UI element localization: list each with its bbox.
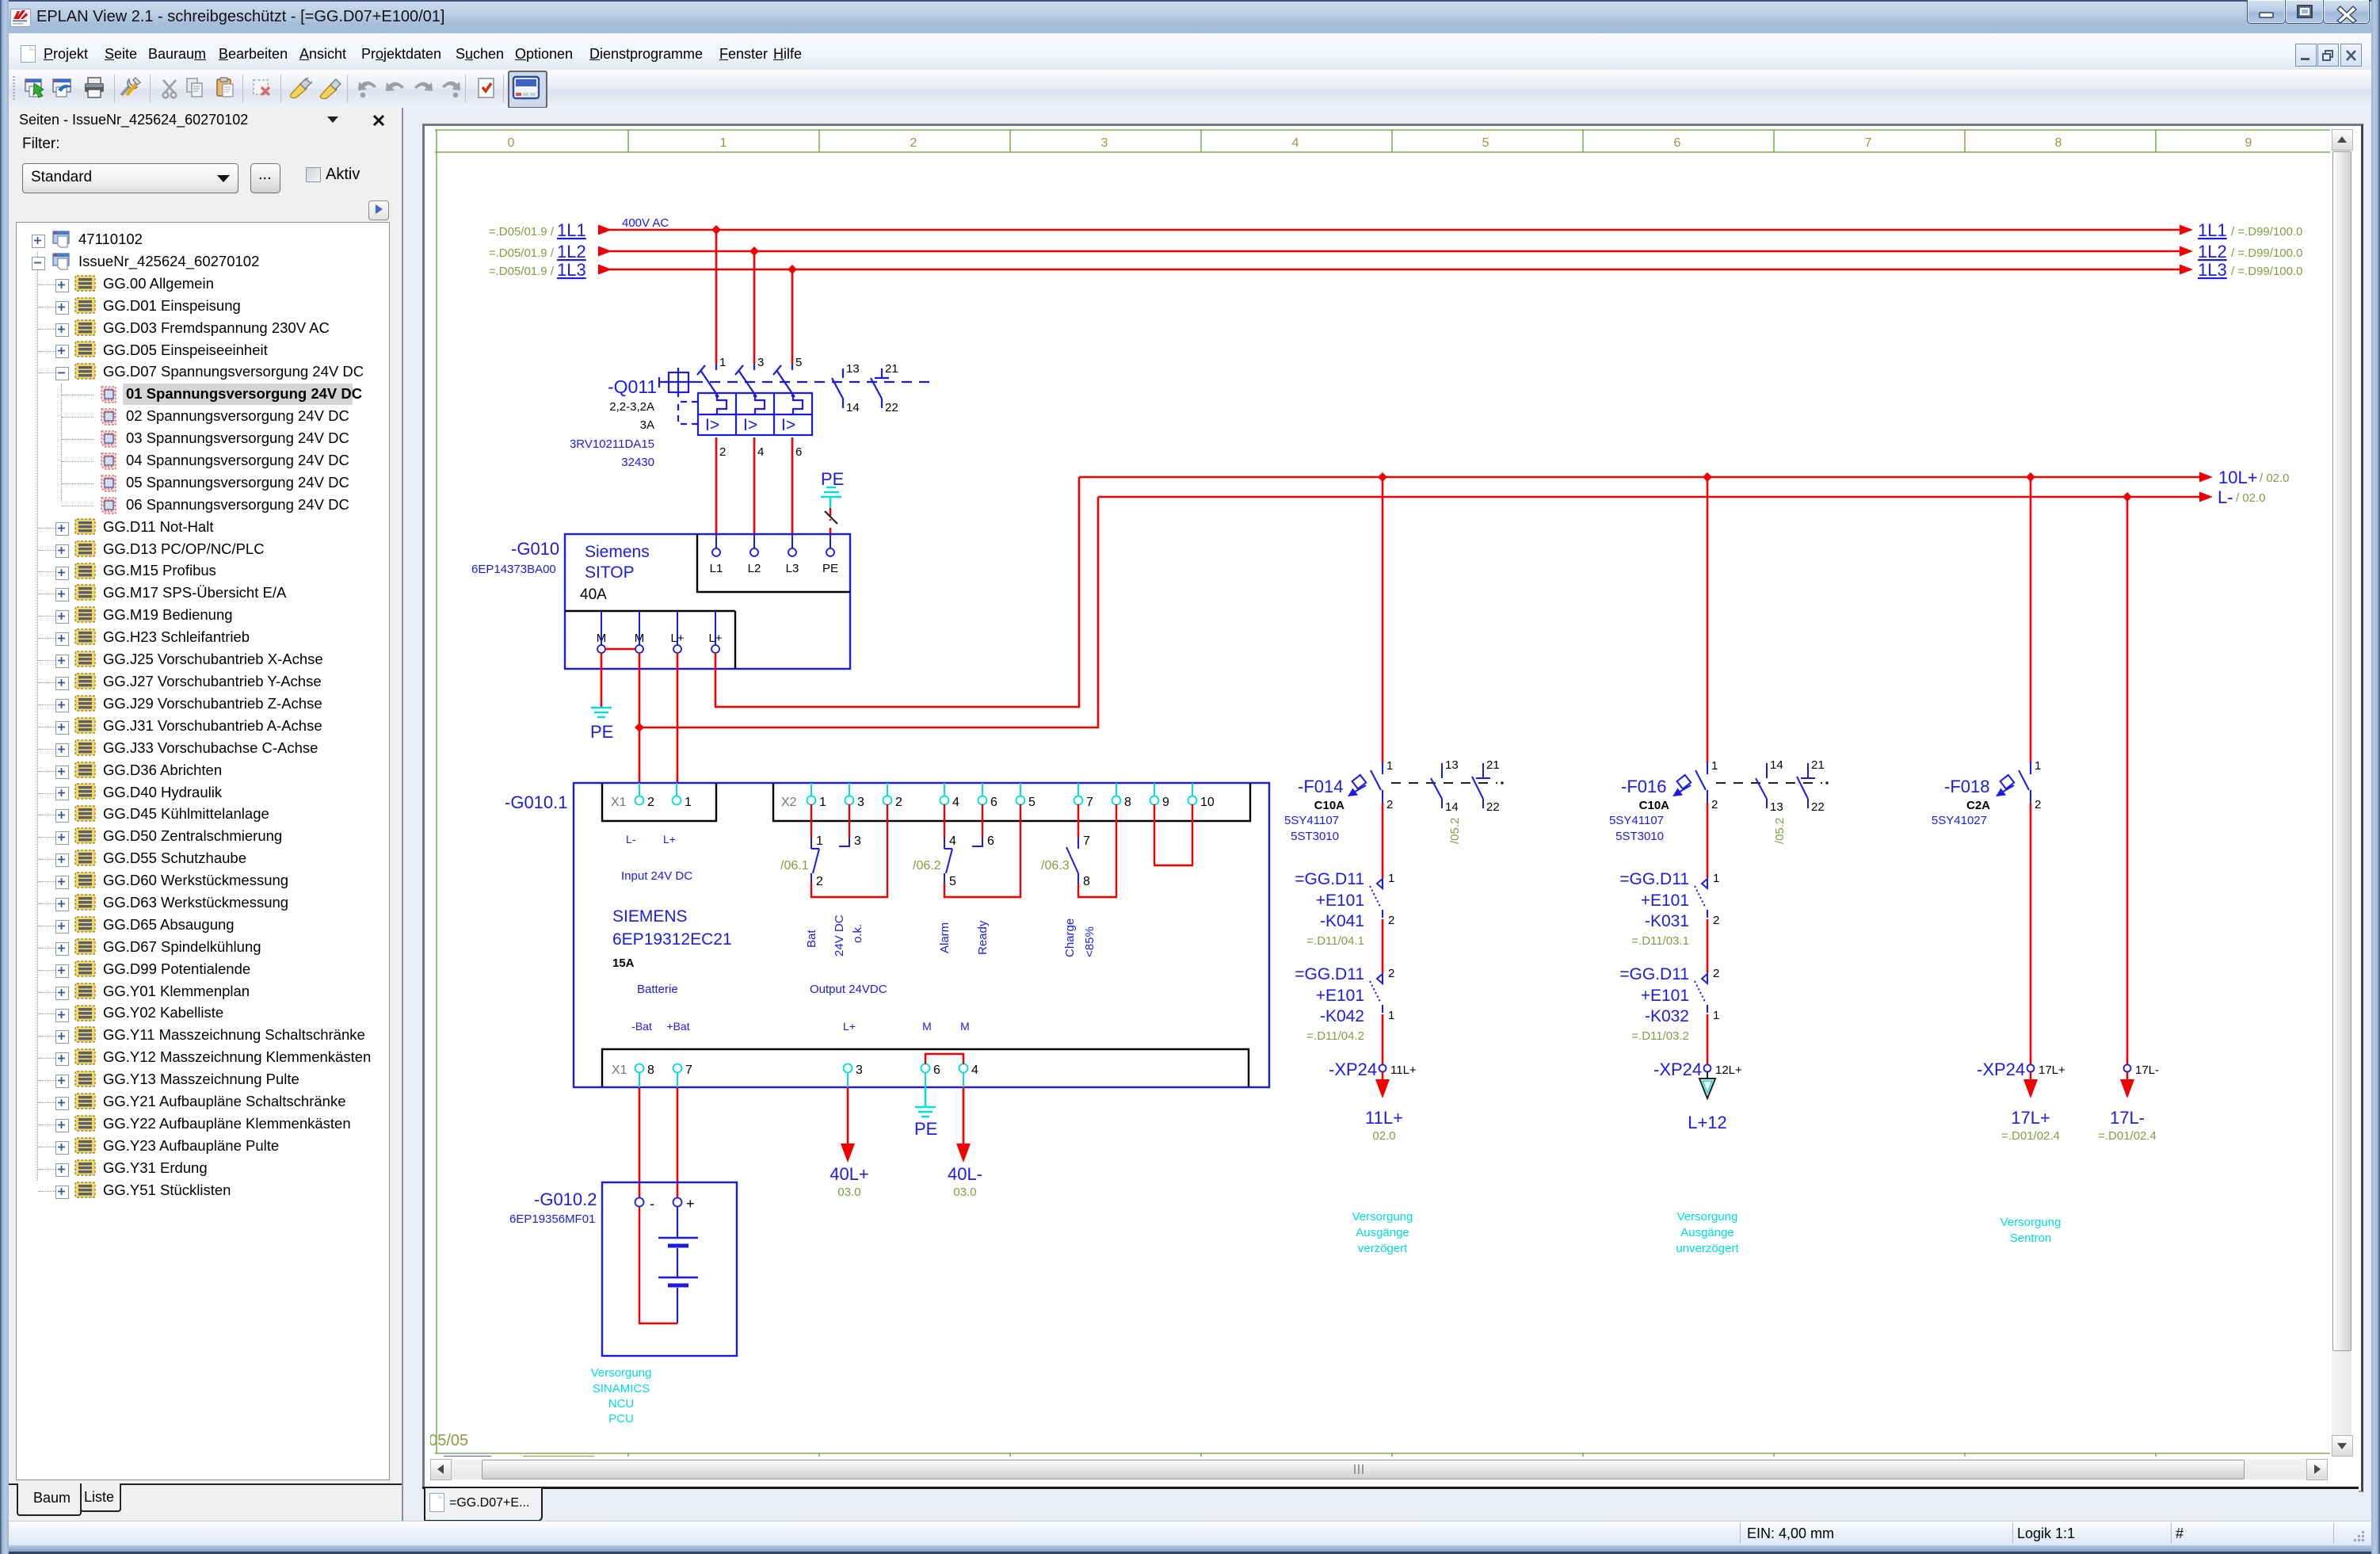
svg-text:14: 14: [1770, 758, 1783, 772]
svg-text:2: 2: [647, 796, 654, 809]
svg-text:5SY41027: 5SY41027: [1932, 814, 1987, 827]
G010.2 labels: [509, 1189, 597, 1226]
svg-text:L-: L-: [2218, 487, 2233, 507]
junction on L-: [2123, 492, 2132, 502]
wire F014 to K041: [1382, 803, 1384, 878]
forward button: [368, 200, 389, 220]
wire to G010.2 plus: [677, 1087, 679, 1198]
wire L+ down to X1.1: [677, 653, 679, 784]
svg-text:22: 22: [1486, 800, 1500, 814]
svg-text:Versorgung: Versorgung: [591, 1366, 652, 1380]
svg-text:L+: L+: [843, 1020, 856, 1033]
node label 1L1 right: [2198, 220, 2302, 240]
svg-text:6EP14373BA00: 6EP14373BA00: [471, 563, 556, 576]
svg-text:2: 2: [910, 136, 917, 150]
svg-text:3: 3: [1101, 136, 1108, 150]
svg-text:0: 0: [508, 136, 515, 150]
svg-text:NCU: NCU: [608, 1397, 635, 1411]
svg-text:-G010.1: -G010.1: [505, 792, 568, 812]
breaker F018: [1996, 762, 2031, 803]
panel titlebar: [19, 112, 248, 128]
svg-text:1: 1: [720, 136, 727, 150]
wire M1 to PE ground: [601, 653, 603, 708]
svg-text:11L+: 11L+: [1365, 1108, 1403, 1128]
svg-text:-XP24: -XP24: [1329, 1060, 1377, 1079]
svg-text:1L1: 1L1: [557, 220, 586, 240]
F014 aux 21/22: [1472, 763, 1490, 808]
terminal XP24 11L+: [1329, 1060, 1417, 1079]
svg-text:-G010: -G010: [511, 539, 559, 559]
wire F018 to XP24: [2030, 803, 2032, 1064]
svg-text:11L+: 11L+: [1390, 1063, 1417, 1077]
svg-text:1: 1: [1388, 1009, 1394, 1022]
svg-text:-F016: -F016: [1621, 777, 1666, 796]
svg-text:8: 8: [1083, 875, 1090, 888]
G010 input terminals L1 L2 L3 PE: [710, 534, 838, 575]
svg-text:C2A: C2A: [1966, 799, 1990, 812]
svg-text:PE: PE: [822, 562, 838, 575]
F016 aux 14/13: [1756, 763, 1767, 808]
svg-text:L-: L-: [626, 833, 636, 846]
wire M down to X1.2: [639, 727, 641, 784]
contact K032: [1695, 974, 1707, 1013]
node label 1L3 right: [2198, 260, 2302, 280]
function text SINAMICS supply: [591, 1366, 652, 1426]
svg-text:PE: PE: [821, 469, 844, 489]
node label 17L-: [2098, 1108, 2157, 1143]
svg-text:9: 9: [1162, 796, 1169, 809]
svg-text:/05.2: /05.2: [1773, 818, 1787, 844]
main window titlebar: [0, 0, 2380, 34]
svg-text:1L3: 1L3: [2198, 260, 2227, 280]
svg-text:/ 02.0: / 02.0: [2236, 491, 2266, 505]
wire arrow 17L+: [2023, 1072, 2038, 1098]
svg-text:4: 4: [952, 796, 959, 809]
svg-text:8: 8: [1124, 796, 1131, 809]
wire drops from buses to Q011: [716, 230, 792, 364]
svg-text:L3: L3: [786, 562, 799, 575]
svg-text:4: 4: [1292, 136, 1299, 150]
svg-text:4: 4: [971, 1063, 978, 1077]
svg-text:03.0: 03.0: [837, 1186, 860, 1199]
svg-text:-F018: -F018: [1944, 777, 1989, 796]
svg-text:Versorgung: Versorgung: [1352, 1210, 1413, 1224]
wire 40L+ with arrow: [841, 1087, 855, 1163]
svg-text:+E101: +E101: [1641, 892, 1689, 910]
svg-text:22: 22: [1811, 800, 1825, 814]
svg-text:=.D05/01.9 /: =.D05/01.9 /: [489, 225, 555, 239]
svg-text:7: 7: [1083, 834, 1090, 848]
G010.2 terminals: [635, 1196, 695, 1212]
horizontal scrollbar: [430, 1459, 2327, 1480]
svg-text:1L1: 1L1: [2198, 220, 2227, 240]
svg-text:6: 6: [933, 1063, 940, 1077]
K041 labels: [1295, 870, 1364, 948]
svg-text:5SY41107: 5SY41107: [1284, 814, 1339, 827]
toolbar icons: [25, 77, 47, 99]
function text outputs delayed: [1352, 1210, 1413, 1255]
svg-text:-K031: -K031: [1645, 912, 1689, 930]
page frame column ruler: [435, 130, 2347, 1453]
svg-text:03.0: 03.0: [953, 1186, 976, 1199]
svg-text:6: 6: [795, 445, 802, 459]
F018 pin numbers: [2035, 759, 2041, 811]
function text Sentron supply: [2000, 1216, 2062, 1245]
wire L- to 17L- terminal: [2126, 497, 2129, 1064]
svg-text:=.D11/04.1: =.D11/04.1: [1306, 934, 1364, 948]
svg-text:=GG.D11: =GG.D11: [1295, 965, 1364, 983]
svg-text:3: 3: [856, 1063, 863, 1077]
svg-text:10L+: 10L+: [2218, 468, 2258, 487]
svg-text:-XP24: -XP24: [1977, 1060, 2025, 1079]
F016 dashed link: [1716, 781, 1829, 785]
svg-text:12L+: 12L+: [1715, 1063, 1742, 1077]
ground PE from X1.6: [914, 1087, 937, 1139]
svg-text:4: 4: [949, 834, 956, 848]
wire K041 to K042: [1382, 919, 1384, 973]
svg-text:-F014: -F014: [1298, 777, 1343, 796]
node label 1L2 left: [489, 242, 586, 262]
svg-text:Siemens: Siemens: [585, 543, 650, 561]
function text outputs undelayed: [1676, 1210, 1739, 1255]
Q011 aux contact 21/22: [871, 368, 889, 408]
document tab: [422, 1487, 2359, 1521]
node label 1L1 left: [489, 220, 586, 240]
svg-text:32430: 32430: [621, 456, 654, 469]
svg-text:=.D05/01.9 /: =.D05/01.9 /: [489, 265, 555, 278]
svg-text:Versorgung: Versorgung: [1677, 1210, 1738, 1224]
svg-text:X1: X1: [611, 796, 627, 809]
wire M-M bridge: [605, 648, 635, 650]
svg-text:/06.2: /06.2: [913, 859, 941, 872]
dc-ups G010.1: [574, 783, 1269, 1087]
wire K031 to K032: [1707, 919, 1709, 973]
ground PE under G010: [590, 708, 613, 742]
svg-text:M: M: [960, 1020, 970, 1033]
drawing child window: [422, 124, 2363, 1492]
svg-text:8: 8: [2055, 136, 2062, 150]
svg-text:5ST3010: 5ST3010: [1291, 830, 1339, 843]
vertical scrollbar: [2332, 129, 2351, 1456]
svg-text:2: 2: [2035, 798, 2041, 811]
svg-text:1: 1: [719, 356, 726, 369]
svg-text:1: 1: [1388, 872, 1394, 885]
svg-text:7: 7: [685, 1063, 692, 1077]
caption buttons: [2247, 0, 2286, 24]
svg-text:M: M: [922, 1020, 932, 1033]
svg-text:Batterie: Batterie: [637, 983, 678, 996]
wire L+ riser to 10L+: [715, 477, 1079, 707]
status bar: [9, 1521, 2371, 1546]
svg-text:2,2-3,2A: 2,2-3,2A: [609, 400, 654, 414]
node label 17L+: [2001, 1108, 2060, 1143]
svg-text:Ready: Ready: [976, 920, 990, 955]
svg-text:Ausgänge: Ausgänge: [1680, 1226, 1734, 1239]
svg-text:Output 24VDC: Output 24VDC: [810, 983, 887, 996]
svg-text:-Bat: -Bat: [631, 1020, 652, 1033]
svg-text:SINAMICS: SINAMICS: [593, 1382, 650, 1396]
svg-text:6: 6: [987, 834, 994, 848]
svg-text:L2: L2: [748, 562, 761, 575]
battery cells: [658, 1207, 698, 1323]
svg-text:2: 2: [1388, 914, 1394, 927]
Q011 aux contact 13/14: [832, 368, 843, 408]
wire bus 1L1: [598, 225, 2193, 235]
wire 10L+ to F018: [2030, 477, 2032, 763]
svg-text:5: 5: [1482, 136, 1489, 150]
svg-text:2: 2: [1711, 798, 1718, 811]
svg-text:2: 2: [1713, 914, 1719, 927]
svg-text:1: 1: [816, 834, 823, 848]
svg-text:o.k.: o.k.: [851, 924, 864, 943]
svg-text:-K032: -K032: [1645, 1007, 1689, 1025]
svg-text:+: +: [686, 1196, 695, 1212]
svg-text:=.D11/04.2: =.D11/04.2: [1306, 1029, 1364, 1043]
svg-text:13: 13: [1770, 800, 1783, 814]
terminal XP24 12L+: [1653, 1060, 1742, 1079]
svg-text:=GG.D11: =GG.D11: [1619, 870, 1689, 888]
PE terminal symbol at G010: [821, 469, 844, 535]
battery return wire: [639, 1207, 677, 1323]
svg-text:PE: PE: [914, 1119, 937, 1139]
svg-text:13: 13: [1445, 758, 1459, 772]
stub terminal 3: [839, 821, 861, 848]
filter label: [22, 136, 60, 153]
svg-text:7: 7: [1865, 136, 1872, 150]
svg-text:40L+: 40L+: [830, 1164, 869, 1184]
svg-text:PE: PE: [590, 722, 613, 742]
F014 labels: [1284, 777, 1344, 843]
node label 1L3 left: [489, 260, 586, 280]
svg-text:/06.1: /06.1: [780, 859, 809, 872]
F014 dashed link: [1391, 781, 1504, 785]
wire 10L+ to F016: [1707, 477, 1709, 763]
contact K031: [1695, 879, 1707, 918]
stub terminal 6: [972, 821, 994, 848]
junction on 1L2: [749, 246, 759, 256]
svg-text:Charge: Charge: [1063, 918, 1077, 957]
svg-text:Input 24V DC: Input 24V DC: [621, 869, 692, 883]
svg-text:1L3: 1L3: [557, 260, 586, 280]
svg-text:-K042: -K042: [1320, 1007, 1364, 1025]
X1 output terminal strip: [612, 1063, 978, 1087]
svg-text:Versorgung: Versorgung: [2000, 1216, 2062, 1229]
menu bar: [9, 33, 2371, 70]
wire bus 1L2: [598, 246, 2193, 257]
terminal XP24 17L-: [2124, 1063, 2160, 1077]
svg-text:6EP19312EC21: 6EP19312EC21: [612, 930, 732, 949]
wire 10L+ to F014: [1382, 477, 1384, 763]
internal contact /06.2: [913, 821, 1020, 897]
schematic canvas: [430, 129, 2330, 1457]
terminal XP24 17L+: [1977, 1060, 2065, 1079]
svg-text:PCU: PCU: [608, 1412, 634, 1426]
svg-text:1: 1: [819, 796, 826, 809]
X2 signal terminal strip: [781, 783, 1215, 821]
potential arrow L+12: [1699, 1072, 1715, 1098]
node label 11L+: [1365, 1108, 1403, 1143]
svg-text:1: 1: [1386, 759, 1393, 773]
svg-text:Alarm: Alarm: [938, 922, 952, 953]
mdi child window buttons: [2295, 44, 2317, 67]
power supply G010: [565, 534, 850, 669]
aktiv checkbox: [306, 167, 321, 182]
svg-text:14: 14: [846, 401, 860, 414]
svg-text:C10A: C10A: [1314, 799, 1345, 812]
svg-text:C10A: C10A: [1639, 799, 1670, 812]
svg-text:1L2: 1L2: [2198, 242, 2227, 262]
svg-text:5: 5: [795, 356, 802, 369]
svg-text:17L-: 17L-: [2110, 1108, 2145, 1128]
node label 10L+: [2218, 468, 2290, 487]
wire K042 to XP24: [1382, 1014, 1384, 1064]
G010.1 texts: [612, 833, 887, 996]
K032 labels: [1619, 965, 1689, 1043]
wire K032 to XP24: [1707, 1014, 1709, 1064]
svg-text:1L2: 1L2: [557, 242, 586, 262]
svg-text:2: 2: [1386, 798, 1393, 811]
svg-text:X1: X1: [612, 1063, 627, 1077]
svg-text:1: 1: [685, 796, 692, 809]
svg-text:2: 2: [1388, 967, 1394, 980]
... button: [250, 163, 280, 193]
battery module G010.2: [602, 1182, 737, 1356]
svg-text:15A: 15A: [612, 956, 635, 970]
wire M riser to L-: [639, 497, 1098, 727]
svg-text:+E101: +E101: [1316, 987, 1364, 1005]
svg-text:+E101: +E101: [1641, 987, 1689, 1005]
K042 labels: [1295, 965, 1364, 1043]
svg-text:I>: I>: [743, 416, 757, 434]
svg-text:17L+: 17L+: [2039, 1063, 2065, 1077]
svg-text:005/05: 005/05: [430, 1432, 468, 1449]
svg-text:=.D11/03.2: =.D11/03.2: [1631, 1029, 1689, 1043]
panel bottom tabs: [9, 1483, 402, 1485]
svg-text:21: 21: [885, 362, 898, 376]
Q011 pin numbers: [719, 356, 802, 459]
svg-text:-: -: [650, 1196, 654, 1212]
svg-text:6: 6: [1674, 136, 1681, 150]
svg-text:13: 13: [846, 362, 860, 376]
window bottom border: [0, 1545, 2380, 1554]
contact K042: [1370, 974, 1383, 1013]
svg-text:+E101: +E101: [1316, 892, 1364, 910]
svg-text:Ausgänge: Ausgänge: [1356, 1226, 1409, 1239]
svg-text:1: 1: [1713, 872, 1719, 885]
svg-text:9: 9: [2245, 136, 2252, 150]
svg-text:4: 4: [757, 445, 764, 459]
svg-text:=GG.D11: =GG.D11: [1295, 870, 1364, 888]
G010 labels: [471, 539, 650, 603]
node label L-: [2218, 487, 2266, 507]
wire bus L-: [1098, 492, 2213, 502]
svg-text:8: 8: [647, 1063, 654, 1077]
terminal function labels: [631, 1020, 970, 1033]
bridge terminals 9-10: [1154, 821, 1192, 865]
svg-text:=.D01/02.4: =.D01/02.4: [2001, 1129, 2060, 1143]
svg-text:<85%: <85%: [1083, 926, 1097, 957]
svg-text:5SY41107: 5SY41107: [1609, 814, 1664, 827]
junction M riser: [635, 723, 644, 732]
filter dropdown: [22, 163, 238, 193]
svg-text:I>: I>: [705, 416, 719, 434]
svg-text:/ 02.0: / 02.0: [2260, 472, 2290, 485]
svg-text:=.D01/02.4: =.D01/02.4: [2098, 1129, 2157, 1143]
junction on 1L3: [788, 265, 797, 274]
wire bus 1L3: [598, 265, 2193, 275]
bridge 6-4: [925, 1054, 963, 1064]
svg-text:40L-: 40L-: [948, 1164, 982, 1184]
svg-text:17L+: 17L+: [2011, 1108, 2050, 1128]
svg-text:6EP19356MF01: 6EP19356MF01: [509, 1212, 595, 1226]
svg-text:1: 1: [1711, 759, 1718, 773]
svg-text:24V DC: 24V DC: [833, 914, 846, 956]
svg-text:5: 5: [949, 875, 956, 888]
svg-text:=GG.D11: =GG.D11: [1619, 965, 1689, 983]
svg-text:3: 3: [857, 796, 864, 809]
F016 pin numbers: [1711, 759, 1718, 811]
node label 40L+: [830, 1164, 869, 1199]
node label 1L2 right: [2198, 242, 2302, 262]
svg-text:L+12: L+12: [1688, 1113, 1727, 1132]
internal contact /06.1: [780, 821, 887, 897]
svg-text:6: 6: [990, 796, 997, 809]
tree box: [16, 222, 390, 1480]
motor breaker Q011: [608, 364, 936, 435]
svg-text:3A: 3A: [640, 418, 654, 432]
breaker F016: [1672, 762, 1707, 803]
svg-text:2: 2: [719, 445, 726, 459]
svg-text:/05.2: /05.2: [1448, 818, 1462, 844]
F018 labels: [1932, 777, 1990, 827]
junctions on 10L+: [1378, 472, 1387, 482]
svg-text:5: 5: [1028, 796, 1036, 809]
svg-text:L+: L+: [663, 833, 676, 846]
svg-text:400V AC: 400V AC: [622, 216, 669, 230]
node label 40L-: [948, 1164, 982, 1199]
svg-text:SIEMENS: SIEMENS: [612, 907, 688, 926]
svg-text:/ =.D99/100.0: / =.D99/100.0: [2231, 246, 2302, 260]
svg-text:-K041: -K041: [1320, 912, 1364, 930]
F014 aux 13/14: [1431, 763, 1442, 808]
signal name labels: [805, 914, 1097, 957]
svg-text:3: 3: [757, 356, 764, 369]
svg-text:/06.3: /06.3: [1041, 859, 1070, 872]
Q011 value labels: [570, 400, 654, 469]
svg-text:10: 10: [1200, 796, 1215, 809]
svg-text:Sentron: Sentron: [2010, 1231, 2052, 1245]
svg-text:2: 2: [895, 796, 902, 809]
svg-text:21: 21: [1486, 758, 1500, 772]
left dock panel: [9, 108, 402, 1521]
eplan app icon: [10, 9, 31, 27]
svg-text:Bat: Bat: [805, 930, 818, 948]
wire F016 to K031: [1707, 803, 1709, 878]
G010 output terminals M M L+ L+: [597, 611, 723, 653]
svg-text:verzögert: verzögert: [1358, 1242, 1408, 1255]
svg-text:L1: L1: [710, 562, 723, 575]
wire to G010.2 minus: [639, 1087, 641, 1198]
svg-text:=.D11/03.1: =.D11/03.1: [1631, 934, 1689, 948]
svg-text:2: 2: [1713, 967, 1719, 980]
svg-text:5ST3010: 5ST3010: [1615, 830, 1664, 843]
svg-text:=.D05/01.9 /: =.D05/01.9 /: [489, 246, 555, 260]
F016 aux 21/22: [1797, 763, 1815, 808]
svg-text:2: 2: [816, 875, 823, 888]
F014 pin numbers: [1386, 759, 1393, 811]
svg-text:7: 7: [1086, 796, 1093, 809]
svg-text:22: 22: [885, 401, 898, 414]
